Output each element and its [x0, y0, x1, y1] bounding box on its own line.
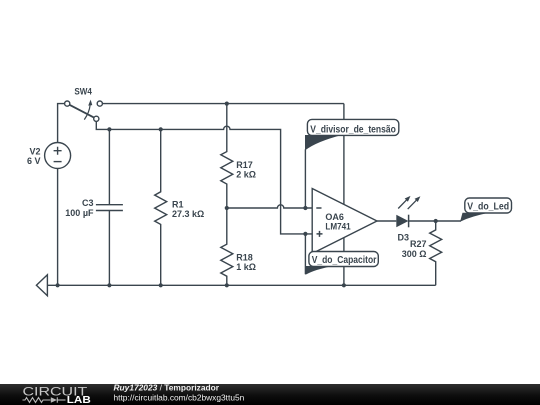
flag label V_do_Led	[460, 198, 511, 221]
resistor R27	[430, 221, 442, 285]
led arrow 2	[408, 200, 417, 209]
svg-text:R17: R17	[236, 160, 253, 170]
svg-text:LM741: LM741	[325, 222, 350, 232]
led arrow 1	[398, 200, 407, 209]
node dot led / R27	[434, 219, 438, 223]
svg-text:300 Ω: 300 Ω	[402, 249, 427, 259]
switch upper throw contact	[97, 101, 102, 106]
svg-text:27.3 kΩ: 27.3 kΩ	[172, 209, 204, 219]
logo resistor-diode glyph	[23, 397, 66, 402]
node dot mid rail / C3	[107, 127, 111, 131]
svg-text:V_divisor_de_tensão: V_divisor_de_tensão	[310, 124, 396, 135]
node dot divider R17/R18	[225, 206, 229, 210]
node dot ground rail C3	[107, 283, 111, 287]
resistor R1	[155, 129, 167, 285]
svg-text:C3: C3	[82, 198, 94, 208]
svg-text:LAB: LAB	[67, 395, 91, 405]
wire bottom ground rail	[47, 284, 435, 286]
svg-text:R27: R27	[410, 239, 427, 249]
wire plus wire to label V_do_Capacitor	[304, 234, 306, 274]
wire LED to node V_do_Led	[409, 220, 461, 222]
svg-text:D3: D3	[398, 232, 410, 242]
flag label V_do_Capacitor	[305, 252, 378, 275]
voltage source V2	[45, 143, 71, 169]
footer bar	[0, 384, 540, 405]
wire switch throw down and mid rail with hop over R17, to op-amp + input	[96, 121, 312, 233]
wire minus input from divider with hop	[227, 205, 313, 208]
resistor R17	[221, 104, 233, 208]
switch pole contact	[65, 101, 70, 106]
wire V2 bottom	[57, 169, 59, 286]
node dot ground rail R1	[159, 283, 163, 287]
switch lower throw contact	[94, 116, 99, 121]
wire top rail	[102, 103, 344, 105]
node dot ground rail right vertical	[342, 283, 346, 287]
diode LED D3	[396, 196, 420, 227]
svg-text:V_do_Capacitor: V_do_Capacitor	[312, 255, 377, 266]
switch arrow	[84, 105, 90, 119]
svg-text:1 kΩ: 1 kΩ	[236, 262, 256, 272]
svg-text:R18: R18	[236, 252, 253, 262]
switch blade	[70, 105, 95, 118]
svg-text:http://circuitlab.com/cb2bwxg3: http://circuitlab.com/cb2bwxg3ttu5n	[114, 393, 245, 403]
node dot plus wire / label	[303, 232, 307, 236]
svg-text:OA6: OA6	[325, 212, 344, 222]
node dot ground rail R18	[225, 283, 229, 287]
op-amp output wire	[377, 220, 396, 222]
op-amp OA6	[312, 189, 377, 254]
flag label V_divisor_de_tensao	[305, 119, 399, 149]
svg-text:2 kΩ: 2 kΩ	[236, 169, 256, 179]
wire label V_divisor to minus wire	[304, 149, 306, 208]
svg-text:Ruy172023 / Temporizador: Ruy172023 / Temporizador	[114, 383, 220, 393]
node dot top rail / R17	[225, 102, 229, 106]
svg-text:6 V: 6 V	[27, 156, 41, 166]
svg-text:100 µF: 100 µF	[65, 208, 94, 218]
resistor R18	[221, 208, 233, 285]
wire right vertical to ground rail	[343, 104, 345, 286]
node dot minus wire / label	[303, 206, 307, 210]
capacitor C3	[96, 129, 123, 285]
wire V2 top to switch pole	[58, 104, 65, 143]
svg-text:SW4: SW4	[74, 86, 92, 96]
switch SW4	[65, 100, 103, 122]
node dot mid rail / R1	[159, 127, 163, 131]
ground node symbol	[36, 275, 47, 296]
svg-text:R1: R1	[172, 199, 184, 209]
node dot ground rail V2	[56, 283, 60, 287]
svg-text:V_do_Led: V_do_Led	[467, 202, 509, 213]
svg-text:V2: V2	[29, 146, 40, 156]
